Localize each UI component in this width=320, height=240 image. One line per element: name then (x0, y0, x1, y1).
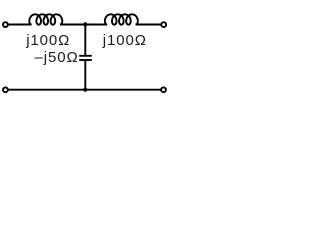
terminal top-right (161, 22, 166, 27)
wire junction to L2 (85, 24, 107, 26)
node junction bottom (83, 88, 87, 92)
capacitor C1 bottom plate (79, 59, 92, 61)
wire L1 to junction (60, 24, 86, 26)
wire junction down to capacitor (84, 25, 86, 56)
capacitor C1 top plate (79, 55, 92, 57)
node junction top (83, 22, 87, 26)
wire L2 to terminal top-right (136, 24, 162, 26)
inductor L2 coil (105, 14, 138, 24)
wire capacitor to bottom rail (84, 60, 86, 90)
svg-text:–j50Ω: –j50Ω (35, 49, 79, 66)
svg-text:j100Ω: j100Ω (102, 32, 147, 49)
inductor L1 coil (29, 14, 62, 24)
terminal top-left (3, 22, 8, 27)
wire top-left (8, 24, 31, 26)
terminal bottom-left (3, 87, 8, 92)
terminal bottom-right (161, 87, 166, 92)
svg-text:j100Ω: j100Ω (25, 32, 70, 49)
wire bottom rail (8, 89, 161, 91)
